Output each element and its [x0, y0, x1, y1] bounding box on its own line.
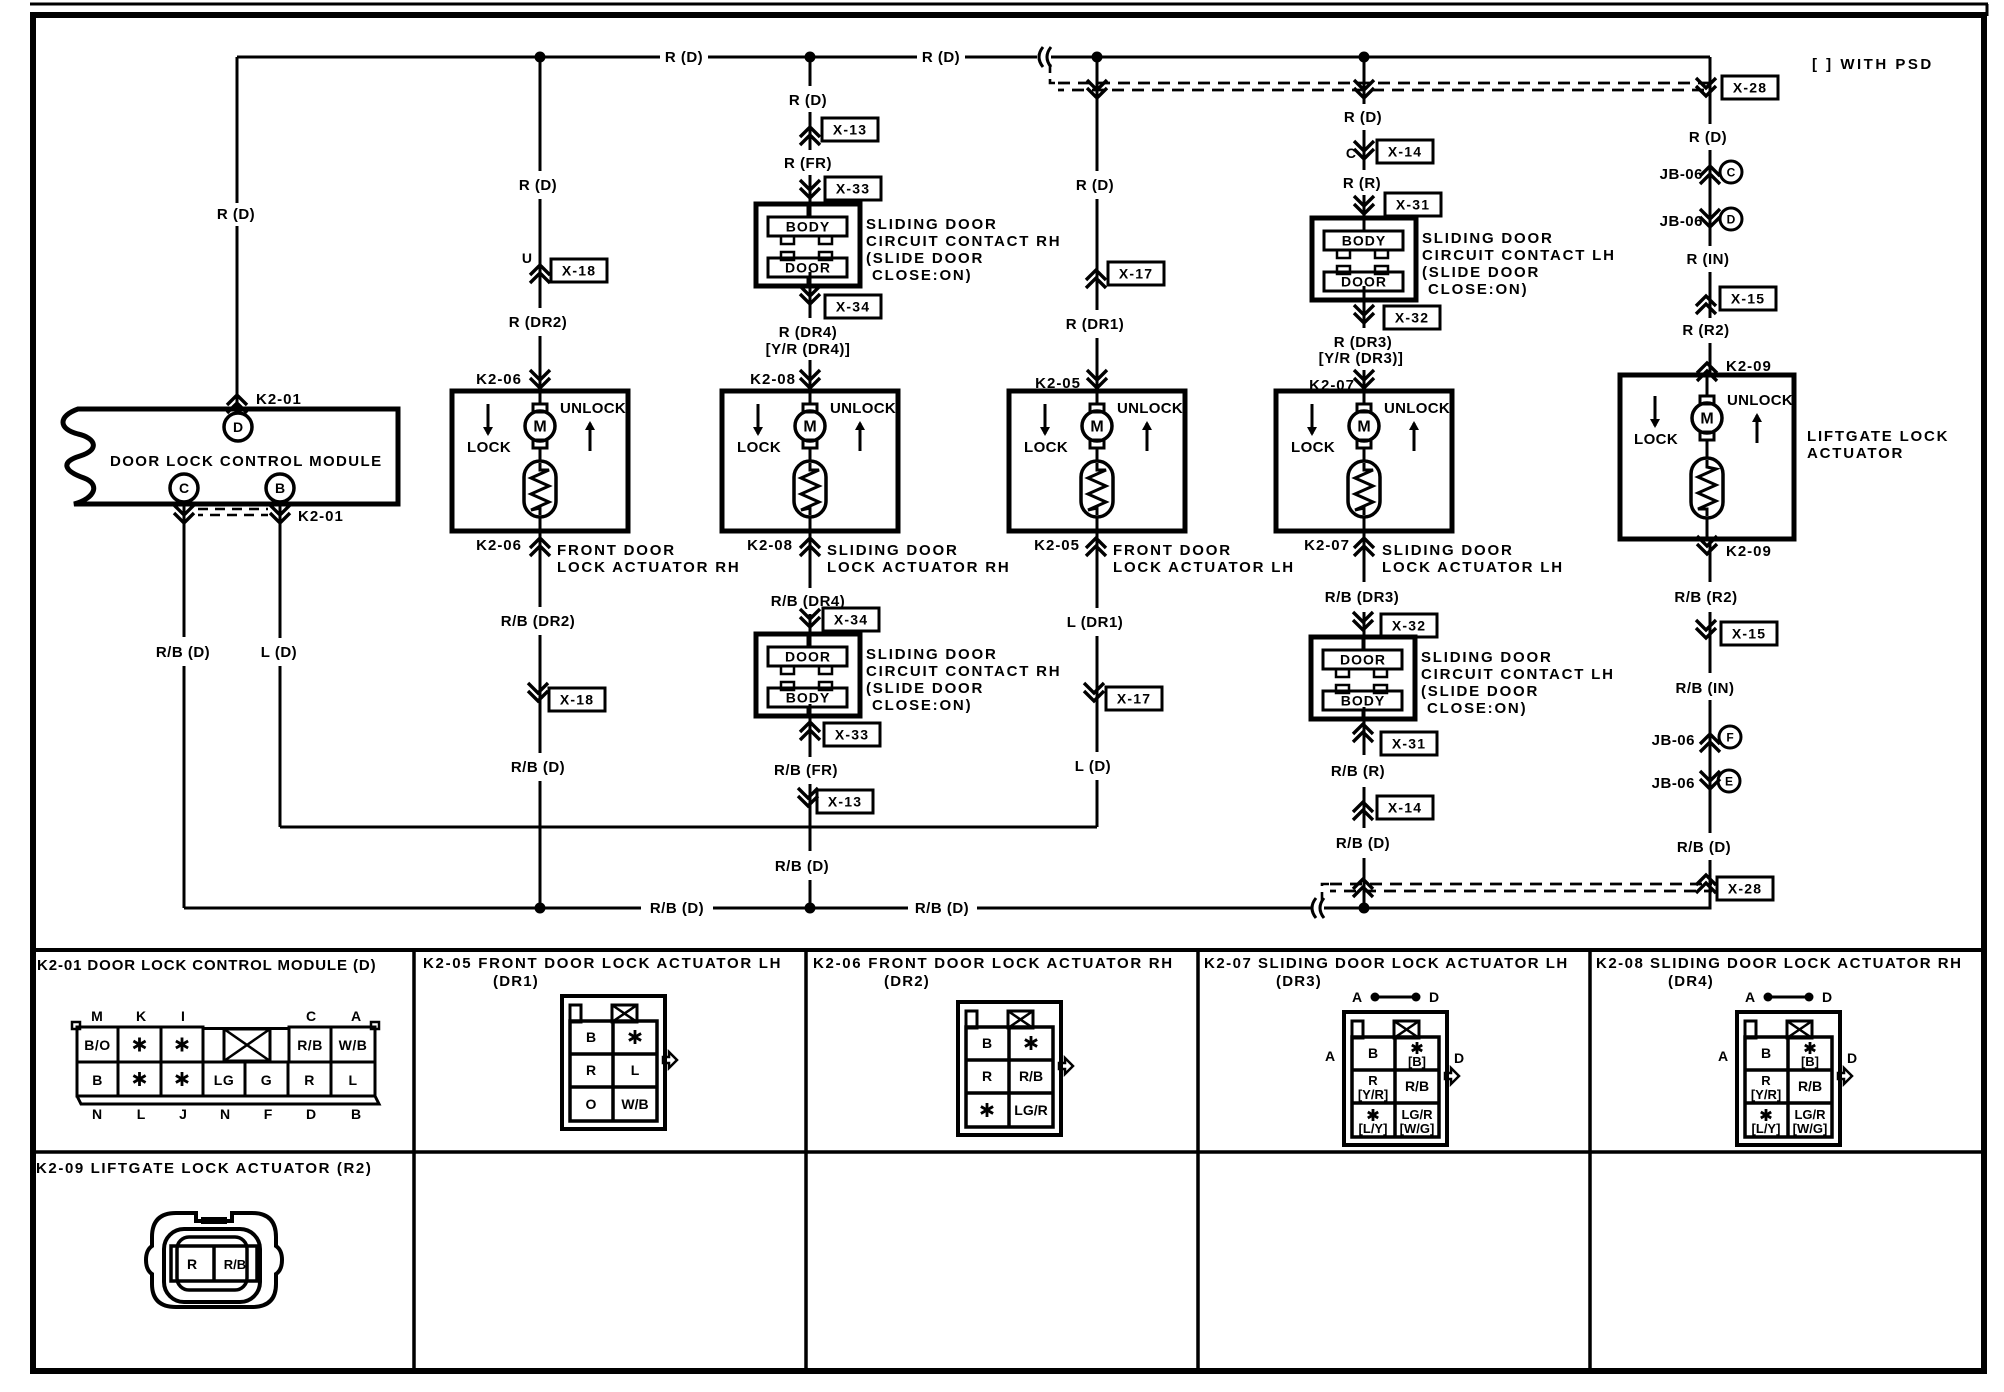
svg-text:UNLOCK: UNLOCK: [1117, 400, 1183, 417]
svg-text:K2-08: K2-08: [747, 537, 793, 554]
svg-text:R: R: [304, 1072, 315, 1088]
svg-text:R (D): R (D): [1344, 109, 1382, 126]
junction block pin F circle: [1719, 726, 1741, 748]
svg-text:L: L: [137, 1106, 146, 1122]
table column divider 3: [1196, 950, 1200, 1371]
svg-text:R (FR): R (FR): [784, 155, 832, 172]
svg-text:R/B: R/B: [1019, 1068, 1043, 1084]
chevron X-13 lower: [798, 796, 818, 806]
svg-text:R/B (DR2): R/B (DR2): [501, 613, 576, 630]
svg-text:[W/G]: [W/G]: [1400, 1121, 1435, 1136]
wire col D upper: [1096, 57, 1099, 171]
connector X-28 top: [1722, 76, 1778, 99]
PSD dashed double bus lower: [1330, 883, 1712, 886]
page border outer thin top line: [30, 3, 1988, 6]
svg-text:LOCK: LOCK: [1024, 439, 1068, 456]
front door lock actuator LH box: [1009, 391, 1185, 531]
connector X-15 upper: [1720, 287, 1776, 310]
connector X-33 upper: [825, 177, 881, 200]
svg-text:A: A: [1745, 989, 1755, 1005]
svg-text:X-17: X-17: [1117, 691, 1151, 707]
chevron K2-05 below actuator: [1086, 538, 1106, 548]
wire col C upper: [809, 57, 812, 86]
chevron X-32 upper: [1354, 313, 1374, 323]
junction node col B on bottom bus: [535, 903, 546, 914]
svg-text:(SLIDE DOOR: (SLIDE DOOR: [1422, 264, 1540, 281]
connector X-17 lower: [1106, 687, 1162, 710]
svg-text:R/B (R): R/B (R): [1331, 763, 1385, 780]
svg-text:SLIDING DOOR: SLIDING DOOR: [1421, 649, 1553, 666]
svg-text:X-14: X-14: [1388, 144, 1422, 160]
svg-text:R (IN): R (IN): [1687, 251, 1730, 268]
svg-text:D: D: [1454, 1050, 1464, 1066]
wire bus1 L(D) horizontal: [280, 826, 1097, 829]
svg-text:K2-07 SLIDING DOOR LOCK ACTUAT: K2-07 SLIDING DOOR LOCK ACTUATOR LH: [1204, 955, 1569, 972]
svg-text:R/B (D): R/B (D): [915, 900, 969, 917]
connector K2-05 pinout drawing: [562, 996, 665, 1129]
PSD dashed double bus top: [1058, 82, 1712, 85]
svg-text:FRONT DOOR: FRONT DOOR: [557, 542, 676, 559]
wire pin C R/B(D) drop: [183, 502, 186, 637]
wire col A R(D) drop to module: [236, 57, 239, 203]
svg-text:[B]: [B]: [1408, 1054, 1426, 1069]
svg-text:(DR3): (DR3): [1276, 973, 1322, 990]
svg-text:M: M: [533, 419, 546, 436]
chevron K2-01 below module pin B: [270, 513, 290, 523]
table column divider 1: [412, 950, 416, 1371]
svg-text:DOOR: DOOR: [785, 649, 831, 665]
svg-text:X-31: X-31: [1392, 736, 1426, 752]
svg-text:X-34: X-34: [834, 612, 868, 628]
svg-text:X-34: X-34: [836, 299, 870, 315]
svg-text:W/B: W/B: [621, 1096, 648, 1112]
svg-text:R/B (DR3): R/B (DR3): [1325, 589, 1400, 606]
svg-text:LOCK ACTUATOR RH: LOCK ACTUATOR RH: [827, 559, 1011, 576]
svg-text:F: F: [1726, 731, 1733, 745]
svg-text:E: E: [1725, 775, 1733, 789]
svg-text:UNLOCK: UNLOCK: [830, 400, 896, 417]
svg-text:R/B (D): R/B (D): [511, 759, 565, 776]
svg-text:R (DR4): R (DR4): [779, 324, 838, 341]
junction node col B: [535, 52, 546, 63]
svg-text:K2-05: K2-05: [1034, 537, 1080, 554]
PSD dashed link at module connector K2-01: [198, 508, 268, 511]
svg-text:J: J: [179, 1106, 187, 1122]
chevron on dashed bus at col E: [1354, 88, 1374, 98]
svg-text:B: B: [1368, 1045, 1378, 1061]
svg-text:B: B: [1761, 1045, 1771, 1061]
svg-text:R: R: [187, 1256, 197, 1272]
wire bus2 seg2: [713, 907, 908, 910]
svg-text:I: I: [181, 1008, 185, 1024]
svg-text:D: D: [233, 419, 243, 435]
svg-text:B: B: [351, 1106, 361, 1122]
wire col E lower: [1363, 531, 1366, 582]
chevron K2-07 below actuator: [1354, 538, 1374, 548]
break marker on top bus: [1039, 47, 1043, 67]
svg-text:(DR2): (DR2): [884, 973, 930, 990]
wire bus2 seg4 to liftgate corner: [1324, 905, 1710, 908]
chevron K2-09 below actuator: [1697, 544, 1717, 554]
svg-text:R/B: R/B: [297, 1037, 323, 1053]
wire col D lower: [1096, 531, 1099, 608]
svg-text:X-18: X-18: [560, 692, 594, 708]
svg-text:M: M: [1090, 419, 1103, 436]
junction block pin C circle: [1720, 161, 1742, 183]
svg-text:L: L: [348, 1072, 357, 1088]
svg-text:DOOR LOCK CONTROL MODULE: DOOR LOCK CONTROL MODULE: [110, 453, 382, 470]
svg-text:[B]: [B]: [1801, 1054, 1819, 1069]
svg-text:L (D): L (D): [261, 644, 297, 661]
svg-text:CLOSE:ON): CLOSE:ON): [1427, 700, 1527, 717]
svg-text:LOCK: LOCK: [467, 439, 511, 456]
svg-text:R/B (D): R/B (D): [650, 900, 704, 917]
svg-text:SLIDING DOOR: SLIDING DOOR: [866, 646, 998, 663]
wire col F lower: [1709, 539, 1712, 582]
wire col C lower: [809, 531, 812, 588]
svg-text:ACTUATOR: ACTUATOR: [1807, 445, 1904, 462]
break marker on bus2: [1312, 898, 1316, 918]
front door lock actuator RH box: [452, 391, 628, 531]
connector X-14 lower: [1377, 796, 1433, 819]
svg-text:BODY: BODY: [786, 219, 830, 235]
chevron X-13 upper: [800, 127, 820, 137]
module pin C: [170, 474, 198, 502]
module pin B: [266, 474, 294, 502]
sliding door circuit contact LH lower box: [1311, 637, 1415, 719]
svg-text:BODY: BODY: [786, 690, 830, 706]
svg-text:(SLIDE DOOR: (SLIDE DOOR: [866, 250, 984, 267]
svg-text:[L/Y]: [L/Y]: [1752, 1121, 1781, 1136]
svg-text:N: N: [220, 1106, 230, 1122]
junction node col C: [805, 52, 816, 63]
svg-text:A: A: [1718, 1048, 1728, 1064]
chevron JB-06 E: [1700, 779, 1720, 789]
wire col B upper: [539, 57, 542, 171]
svg-text:DOOR: DOOR: [785, 260, 831, 276]
sliding door circuit contact RH lower box: [756, 634, 860, 716]
svg-text:[L/Y]: [L/Y]: [1359, 1121, 1388, 1136]
table row divider: [33, 1150, 1984, 1154]
sliding door circuit contact LH upper box: [1312, 218, 1416, 300]
connector X-18 lower: [549, 688, 605, 711]
chevron X-18 upper: [530, 265, 550, 275]
chevron K2-01 above module: [227, 395, 247, 405]
svg-text:R/B (IN): R/B (IN): [1676, 680, 1735, 697]
svg-text:CIRCUIT CONTACT RH: CIRCUIT CONTACT RH: [866, 233, 1061, 250]
svg-text:SLIDING DOOR: SLIDING DOOR: [827, 542, 959, 559]
connector X-31 lower: [1381, 732, 1437, 755]
svg-text:BODY: BODY: [1342, 233, 1386, 249]
chevron K2-06 below actuator: [530, 538, 550, 548]
junction node col C on bottom bus: [805, 903, 816, 914]
svg-text:L (D): L (D): [1075, 758, 1111, 775]
svg-text:A: A: [1325, 1048, 1335, 1064]
chevron before X-28 bottom: [1696, 875, 1716, 885]
svg-text:K2-08 SLIDING DOOR LOCK ACTUAT: K2-08 SLIDING DOOR LOCK ACTUATOR RH: [1596, 955, 1962, 972]
svg-text:SLIDING DOOR: SLIDING DOOR: [1382, 542, 1514, 559]
svg-text:F: F: [264, 1106, 273, 1122]
svg-text:CIRCUIT CONTACT LH: CIRCUIT CONTACT LH: [1421, 666, 1615, 683]
chevron K2-01 below module pin C: [174, 513, 194, 523]
svg-text:X-17: X-17: [1119, 266, 1153, 282]
svg-text:B/O: B/O: [84, 1037, 110, 1053]
svg-text:G: G: [261, 1072, 272, 1088]
svg-text:LG: LG: [214, 1072, 234, 1088]
svg-text:M: M: [1357, 419, 1370, 436]
svg-text:R (DR3): R (DR3): [1334, 334, 1393, 351]
chevron on lower dashed bus col E: [1353, 879, 1373, 889]
svg-text:X-32: X-32: [1392, 618, 1426, 634]
svg-text:K: K: [136, 1008, 146, 1024]
svg-text:R (DR2): R (DR2): [509, 314, 568, 331]
svg-text:B: B: [92, 1072, 103, 1088]
svg-text:R (DR1): R (DR1): [1066, 316, 1125, 333]
wire top R(D) bus segment 2: [708, 56, 917, 59]
wire col F R(D) drop: [1709, 57, 1712, 124]
connector X-15 lower: [1721, 622, 1777, 645]
connector K2-01 pinout drawing: [77, 1027, 118, 1062]
svg-text:JB-06: JB-06: [1660, 166, 1703, 183]
svg-text:(SLIDE DOOR: (SLIDE DOOR: [1421, 683, 1539, 700]
svg-text:FRONT DOOR: FRONT DOOR: [1113, 542, 1232, 559]
sliding door circuit contact RH upper box: [756, 204, 860, 286]
svg-text:[ ] WITH PSD: [ ] WITH PSD: [1812, 56, 1934, 73]
connector X-33 lower: [824, 723, 880, 746]
connector X-18 upper: [551, 259, 607, 282]
svg-text:LG/R: LG/R: [1401, 1107, 1433, 1122]
connector X-32 upper: [1384, 306, 1440, 329]
connector X-13 upper: [822, 118, 878, 141]
table column divider 4: [1588, 950, 1592, 1371]
connector X-17 upper: [1108, 262, 1164, 285]
svg-text:B: B: [586, 1029, 596, 1045]
svg-text:X-15: X-15: [1732, 626, 1766, 642]
svg-text:L: L: [631, 1062, 640, 1078]
wire top R(D) bus segment 1: [237, 56, 660, 59]
chevron X-17 lower: [1084, 691, 1104, 701]
svg-text:R (D): R (D): [1689, 129, 1727, 146]
svg-text:LOCK ACTUATOR RH: LOCK ACTUATOR RH: [557, 559, 741, 576]
chevron K2-09 top of actuator: [1697, 363, 1717, 373]
svg-text:SLIDING DOOR: SLIDING DOOR: [1422, 230, 1554, 247]
chevron X-17 upper: [1086, 270, 1106, 280]
svg-text:C: C: [306, 1008, 316, 1024]
svg-text:K2-01 DOOR LOCK CONTROL MODULE: K2-01 DOOR LOCK CONTROL MODULE (D): [37, 957, 377, 974]
svg-text:D: D: [1429, 989, 1439, 1005]
chevron before X-28 top: [1696, 86, 1716, 96]
wire top R(D) bus segment 4 after break: [1051, 56, 1710, 59]
svg-text:DOOR: DOOR: [1340, 652, 1386, 668]
chevron X-31 lower: [1353, 724, 1373, 734]
svg-text:K2-01: K2-01: [256, 391, 302, 408]
svg-text:R (D): R (D): [665, 49, 703, 66]
svg-text:JB-06: JB-06: [1652, 775, 1695, 792]
svg-text:K2-08: K2-08: [750, 371, 796, 388]
svg-text:CLOSE:ON): CLOSE:ON): [872, 697, 972, 714]
svg-text:R (D): R (D): [1076, 177, 1114, 194]
svg-text:A: A: [1352, 989, 1362, 1005]
svg-text:LOCK ACTUATOR LH: LOCK ACTUATOR LH: [1382, 559, 1564, 576]
chevron on dashed bus at col D: [1087, 88, 1107, 98]
svg-text:X-14: X-14: [1388, 800, 1422, 816]
chevron X-34 lower: [800, 617, 820, 627]
svg-text:JB-06: JB-06: [1652, 732, 1695, 749]
table top border: [33, 948, 1984, 952]
svg-text:R: R: [1368, 1073, 1378, 1088]
wire bus2 R/B(D) horizontal seg1: [184, 907, 641, 910]
chevron K2-08 top of actuator: [800, 378, 820, 388]
svg-text:D: D: [1727, 213, 1736, 227]
chevron X-14 upper: [1354, 149, 1374, 159]
svg-text:K2-06: K2-06: [476, 537, 522, 554]
svg-text:LG/R: LG/R: [1014, 1102, 1047, 1118]
svg-text:[Y/R]: [Y/R]: [1358, 1087, 1388, 1102]
table column divider 2: [804, 950, 808, 1371]
chevron JB-06 D: [1700, 217, 1720, 227]
svg-text:LIFTGATE LOCK: LIFTGATE LOCK: [1807, 428, 1949, 445]
connector X-28 bottom: [1717, 877, 1773, 900]
svg-text:[Y/R]: [Y/R]: [1751, 1087, 1781, 1102]
chevron X-15 lower: [1696, 628, 1716, 638]
connector X-34 lower: [823, 608, 879, 631]
svg-text:LOCK: LOCK: [737, 439, 781, 456]
chevron X-33 upper: [800, 188, 820, 198]
svg-text:M: M: [1700, 411, 1713, 428]
connector X-34 upper: [825, 295, 881, 318]
svg-text:X-33: X-33: [835, 727, 869, 743]
connector K2-06 pinout drawing: [958, 1002, 1061, 1135]
chevron X-32 lower: [1353, 620, 1373, 630]
svg-text:(SLIDE DOOR: (SLIDE DOOR: [866, 680, 984, 697]
svg-text:LOCK ACTUATOR LH: LOCK ACTUATOR LH: [1113, 559, 1295, 576]
svg-text:(DR4): (DR4): [1668, 973, 1714, 990]
svg-text:U: U: [522, 250, 532, 266]
module pin D: [224, 413, 252, 441]
svg-text:C: C: [1727, 166, 1736, 180]
wire top R(D) bus segment 3: [965, 56, 1037, 59]
svg-text:D: D: [1847, 1050, 1857, 1066]
sliding door lock actuator LH box: [1276, 391, 1452, 531]
chevron K2-06 top of actuator: [530, 378, 550, 388]
junction node col E on bottom bus: [1359, 903, 1370, 914]
svg-text:R/B (FR): R/B (FR): [774, 762, 838, 779]
svg-text:[Y/R (DR3)]: [Y/R (DR3)]: [1319, 350, 1404, 367]
svg-text:R/B (D): R/B (D): [1677, 839, 1731, 856]
svg-text:SLIDING DOOR: SLIDING DOOR: [866, 216, 998, 233]
junction block pin E circle: [1718, 770, 1740, 792]
svg-text:X-31: X-31: [1396, 197, 1430, 213]
svg-text:K2-06 FRONT DOOR LOCK ACTUATOR: K2-06 FRONT DOOR LOCK ACTUATOR RH: [813, 955, 1174, 972]
svg-text:CIRCUIT CONTACT RH: CIRCUIT CONTACT RH: [866, 663, 1061, 680]
wire pin B L(D) drop: [279, 502, 282, 638]
svg-text:R/B (R2): R/B (R2): [1674, 589, 1737, 606]
svg-text:R/B (D): R/B (D): [156, 644, 210, 661]
svg-text:CIRCUIT CONTACT LH: CIRCUIT CONTACT LH: [1422, 247, 1616, 264]
svg-text:N: N: [92, 1106, 102, 1122]
svg-text:M: M: [803, 419, 816, 436]
chevron K2-08 below actuator: [800, 538, 820, 548]
chevron X-18 lower: [528, 691, 548, 701]
svg-text:X-13: X-13: [833, 122, 867, 138]
svg-text:X-15: X-15: [1731, 291, 1765, 307]
chevron X-15 upper: [1696, 296, 1716, 306]
chevron X-33 lower: [800, 722, 820, 732]
wire col E upper: [1363, 57, 1366, 104]
svg-text:K2-09 LIFTGATE LOCK ACTUATOR (: K2-09 LIFTGATE LOCK ACTUATOR (R2): [36, 1160, 372, 1177]
svg-text:UNLOCK: UNLOCK: [560, 400, 626, 417]
junction block pin D circle: [1720, 208, 1742, 230]
chevron JB-06 F: [1700, 734, 1720, 744]
svg-text:JB-06: JB-06: [1660, 213, 1703, 230]
svg-text:W/B: W/B: [339, 1037, 368, 1053]
junction node col D: [1092, 52, 1103, 63]
svg-text:(DR1): (DR1): [493, 973, 539, 990]
svg-text:D: D: [1822, 989, 1832, 1005]
svg-text:R (R): R (R): [1343, 175, 1381, 192]
svg-text:R/B: R/B: [1798, 1078, 1822, 1094]
svg-text:O: O: [586, 1096, 597, 1112]
svg-text:DOOR: DOOR: [1341, 274, 1387, 290]
svg-text:K2-05 FRONT DOOR LOCK ACTUATOR: K2-05 FRONT DOOR LOCK ACTUATOR LH: [423, 955, 782, 972]
svg-text:[W/G]: [W/G]: [1793, 1121, 1828, 1136]
svg-text:L (DR1): L (DR1): [1067, 614, 1124, 631]
svg-text:R/B (D): R/B (D): [775, 858, 829, 875]
svg-text:M: M: [91, 1008, 103, 1024]
svg-text:K2-01: K2-01: [298, 508, 344, 525]
connector X-14 upper: [1377, 140, 1433, 163]
svg-text:R/B: R/B: [1405, 1078, 1429, 1094]
chevron K2-07 top of actuator: [1354, 378, 1374, 388]
svg-text:K2-06: K2-06: [476, 371, 522, 388]
svg-text:X-33: X-33: [836, 181, 870, 197]
svg-text:R: R: [586, 1062, 596, 1078]
svg-text:R/B (D): R/B (D): [1336, 835, 1390, 852]
svg-text:K2-09: K2-09: [1726, 543, 1772, 560]
svg-text:B: B: [982, 1035, 992, 1051]
svg-text:X-13: X-13: [828, 794, 862, 810]
chevron X-31 upper: [1354, 204, 1374, 214]
svg-text:R (D): R (D): [217, 206, 255, 223]
svg-text:R: R: [1761, 1073, 1771, 1088]
chevron JB-06 C: [1700, 166, 1720, 176]
svg-text:K2-07: K2-07: [1304, 537, 1350, 554]
liftgate lock actuator box: [1620, 375, 1794, 539]
svg-text:UNLOCK: UNLOCK: [1727, 392, 1793, 409]
wire col B lower: [539, 531, 542, 607]
svg-text:C: C: [1346, 145, 1356, 161]
svg-text:BODY: BODY: [1341, 693, 1385, 709]
connector X-32 lower: [1381, 614, 1437, 637]
svg-text:LOCK: LOCK: [1291, 439, 1335, 456]
chevron X-34 upper: [800, 294, 820, 304]
sliding door lock actuator RH box: [722, 391, 898, 531]
svg-text:X-28: X-28: [1728, 881, 1762, 897]
PSD dashed bus elbow from break: [1050, 64, 1060, 83]
svg-text:LOCK: LOCK: [1634, 431, 1678, 448]
svg-text:R (D): R (D): [922, 49, 960, 66]
connector X-31 upper: [1385, 193, 1441, 216]
svg-text:C: C: [179, 480, 189, 496]
svg-text:R (D): R (D): [519, 177, 557, 194]
chevron X-14 lower: [1353, 802, 1373, 812]
svg-text:R: R: [982, 1068, 992, 1084]
wire bus2 seg3: [977, 907, 1311, 910]
svg-text:R (D): R (D): [789, 92, 827, 109]
svg-text:R (R2): R (R2): [1682, 322, 1729, 339]
svg-text:A: A: [351, 1008, 361, 1024]
connector X-13 lower: [817, 790, 873, 813]
